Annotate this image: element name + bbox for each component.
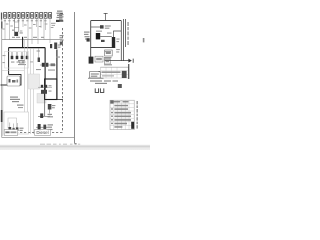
sensor G1 left mid [60, 35, 64, 41]
riser x22.5 [22, 37, 24, 48]
p2 text row y80-84 [90, 80, 118, 84]
light horizontal y70.5 left [2, 70, 24, 72]
M1 glyphs [9, 79, 11, 83]
connector S3 [54, 43, 57, 50]
main dark bus y47.5 [9, 47, 46, 49]
p2 connector pair C1 [95, 88, 98, 92]
labels under row [36, 69, 41, 70]
sensor blob x38 [38, 58, 40, 63]
U1 bottom stub [57, 99, 63, 101]
p2 label right of mid rail [104, 51, 111, 52]
p2 T1 dark cells [122, 71, 127, 78]
fuse element bars [4, 14, 50, 17]
p2 label cluster left [84, 32, 90, 40]
page 1 left border [0, 13, 3, 137]
inner box [8, 118, 17, 128]
dark tick near label block [60, 13, 63, 15]
p2 fuse bar [112, 37, 115, 48]
p2 arrow rail y60.6 [105, 60, 130, 62]
p2 mid rail y47.6 [91, 47, 116, 49]
feeder x8.5 down [8, 48, 10, 75]
shaded region B [37, 94, 46, 104]
p2 table T1 [101, 67, 129, 78]
page2 small mark far right [143, 38, 145, 42]
grid dark blob bottom right [131, 122, 134, 129]
dark tick on left border [1, 110, 3, 122]
ECU block U1 [45, 79, 57, 100]
footer text [40, 143, 80, 145]
text above lower-left box [17, 105, 24, 106]
p2 label right of B3 [104, 57, 112, 58]
p2 motor M2 blob [96, 33, 100, 39]
K1 ladder rungs [14, 21, 18, 23]
p2 left drop wire [90, 21, 92, 64]
shaded region A [29, 74, 40, 89]
text block mid-left y96 [10, 97, 20, 103]
p2 link wire [100, 35, 112, 37]
lower-left component marks [10, 123, 17, 129]
switch bank S1 stems [12, 52, 27, 56]
light bus line y39.5 [2, 39, 62, 41]
p2 T1 header marks [104, 64, 112, 65]
relay K1 blob [14, 32, 18, 36]
p2 connector blob right [118, 84, 122, 88]
pin grid table [110, 100, 134, 129]
K1 side marks [20, 32, 23, 33]
p2 rail y78.2 [88, 77, 104, 79]
p2 top rail [91, 20, 122, 22]
left border dark segment at fuse row [1, 13, 2, 20]
p2 fuse top link [114, 31, 122, 37]
valve Y1 [38, 115, 50, 117]
p2 plug P1 [100, 25, 104, 28]
S3 label [58, 45, 61, 46]
wire drops from fuse row [5, 18, 50, 47]
long riser x57 [56, 50, 58, 100]
wire pair to relay K1 [14, 18, 18, 32]
p2 box B3 [95, 56, 103, 62]
wire labels y23-31 [2, 23, 55, 32]
wire x44.5 down [44, 100, 46, 117]
p2 arrow tail label [133, 59, 134, 63]
grid side vertical text [136, 101, 138, 129]
p2 small box B2 [105, 58, 111, 64]
p2 dark blob under cluster [87, 38, 90, 41]
p2 antenna stub [104, 13, 108, 20]
p2 vertical note text [127, 22, 129, 45]
legend box L2 Diesel [35, 130, 51, 136]
p2 T1 text row [102, 71, 121, 73]
contacts row inside U1 [38, 86, 52, 88]
page 1 left border shade lower [1, 86, 4, 136]
switch bank S1 contacts [11, 56, 29, 59]
light enclosure box left [5, 52, 29, 69]
grid cell text fills [111, 101, 131, 128]
relay K3 mid-bottom [48, 104, 52, 110]
p2 small tick left of fuse [101, 40, 105, 42]
labels above light bus [12, 37, 44, 38]
dashed enclosure bottom [4, 131, 63, 133]
p2 labels above motors [96, 31, 102, 32]
ground row y127 [36, 126, 50, 128]
light vertical wires mid-left [25, 40, 34, 134]
sensor label [37, 51, 41, 52]
fuse row F1-F11 [4, 13, 52, 19]
bottom shadow band [0, 144, 150, 150]
module M1 box [7, 76, 20, 86]
grid corner dark [110, 101, 113, 104]
p2 connector pair C2 [100, 88, 103, 92]
p2 small box B1 [105, 50, 113, 56]
label text right of module M1 [18, 60, 24, 63]
relay K2 top of dashed area [59, 14, 64, 22]
dark bar under label block [56, 20, 63, 22]
p2 branch y27 [91, 26, 100, 28]
page 1 right border [73, 12, 76, 144]
p2 text right of fuse [116, 39, 119, 40]
wire path to module M1 [1, 75, 22, 86]
fuse pin labels [4, 20, 47, 21]
legend box L1 bottom [4, 130, 18, 136]
label block X1 top right of page1 [57, 11, 64, 19]
page 1 bottom border [1, 136, 75, 139]
p2 right bus pair [121, 19, 125, 61]
long riser x45 [44, 48, 46, 100]
components row y63-67 [40, 64, 56, 66]
p2 pump blob [89, 57, 94, 64]
p2 box B4 with text [90, 72, 101, 78]
left border dark tick top [1, 22, 2, 29]
connector S2 near bus [50, 44, 52, 48]
p2 arrow head [128, 59, 131, 63]
svg-text:Diesel: Diesel [36, 130, 48, 135]
small marks left column [3, 55, 6, 56]
S1 labels [11, 60, 26, 65]
lower-left light box [4, 112, 29, 134]
dashed enclosure right side [62, 28, 64, 132]
